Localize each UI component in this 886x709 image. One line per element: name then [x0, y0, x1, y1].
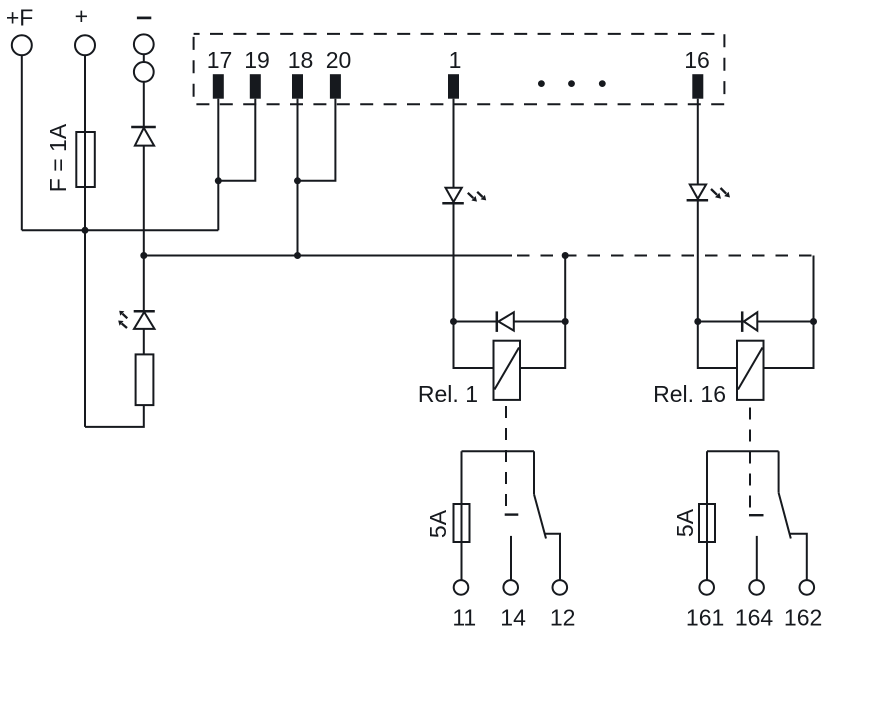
wire +F down [21, 55, 23, 230]
junction ch1 left [450, 318, 457, 325]
connector module boundary (dashed box) [194, 34, 725, 104]
junction ch16 right [810, 318, 817, 325]
diode D1 [131, 127, 156, 146]
junction ch1 right [562, 318, 569, 325]
wire coil16 left [698, 322, 737, 369]
wire pin 1 down [453, 99, 455, 188]
svg-text:+: + [75, 3, 88, 29]
terminal − upper circle [134, 34, 154, 54]
wire − down to diode [143, 82, 145, 127]
wire pin 19 down [218, 99, 255, 181]
terminal 11 [454, 580, 469, 595]
actuator link ch16 (dashed) [749, 408, 751, 515]
junction + rail [82, 227, 89, 234]
wire switch top ch16 [707, 450, 779, 452]
svg-text:Rel. 16: Rel. 16 [653, 381, 726, 407]
wire − between circles [143, 54, 145, 62]
terminal 14 [503, 580, 518, 595]
wire terminal 12 branch [545, 534, 561, 580]
svg-text:+F: +F [6, 4, 33, 30]
wire freewheel row ch16 [698, 321, 743, 323]
svg-text:18: 18 [288, 47, 314, 73]
wire horizontal − rail [144, 255, 512, 257]
terminal 162 [800, 580, 815, 595]
LED D2 (status) [118, 311, 155, 329]
contact bar ch1 [505, 513, 519, 515]
terminal 12 [553, 580, 568, 595]
svg-text:164: 164 [735, 605, 774, 631]
wire terminal 14 branch [510, 536, 512, 580]
relay coil K1 [494, 341, 521, 400]
wire terminal 161 branch [706, 451, 708, 580]
svg-text:20: 20 [326, 47, 352, 73]
junction 18 at − rail [294, 252, 301, 259]
pin 19 [250, 74, 261, 99]
svg-text:162: 162 [784, 605, 822, 631]
wire coil1 left [454, 322, 494, 369]
wire terminal 11 branch [461, 451, 463, 580]
switch blade ch1 [534, 451, 546, 538]
svg-text:1: 1 [449, 47, 462, 73]
svg-text:16: 16 [684, 47, 710, 73]
svg-text:12: 12 [550, 605, 576, 631]
svg-text:17: 17 [207, 47, 233, 73]
svg-text:14: 14 [500, 605, 526, 631]
fuse F1 (F = 1A) [76, 132, 95, 187]
wire coil1 right [520, 256, 565, 369]
label − [137, 17, 151, 20]
wire + down [84, 55, 86, 427]
svg-text:Rel. 1: Rel. 1 [418, 381, 478, 407]
contact bar ch16 [749, 514, 764, 516]
wire LED1 to coil node [453, 203, 455, 321]
pin 18 [292, 74, 303, 99]
wire LED to resistor [143, 329, 145, 355]
wire pin 20 down [298, 99, 336, 181]
fuse F2 (5A) ch1 [454, 504, 470, 542]
pin 16 [692, 74, 703, 99]
freewheeling diode VD1 [497, 311, 514, 332]
wire resistor to + rail [85, 405, 144, 427]
terminal +F [12, 35, 32, 55]
terminal + [75, 35, 95, 55]
LED channel 16 [687, 185, 730, 201]
wire horizontal +F rail [22, 229, 219, 231]
wire LED16 to coil node [697, 200, 699, 321]
wire terminal 164 branch [756, 536, 758, 580]
svg-text:5A: 5A [425, 509, 451, 538]
freewheeling diode VD16 [742, 311, 757, 332]
actuator link ch1 (dashed) [505, 406, 507, 514]
wire − diode to LED [143, 146, 145, 312]
relay coil K16 [737, 341, 764, 400]
junction 17/19 [215, 177, 222, 184]
wire switch top ch1 [462, 450, 535, 452]
junction − rail at − wire [140, 252, 147, 259]
terminal 164 [749, 580, 764, 595]
wire freewheel row ch1 [454, 321, 498, 323]
wire pin 17 down [217, 99, 219, 231]
junction 18/20 [294, 177, 301, 184]
svg-text:161: 161 [686, 605, 724, 631]
wire pin 18 down [297, 99, 299, 256]
terminal 161 [699, 580, 714, 595]
fuse F3 (5A) ch16 [699, 504, 715, 542]
pin 17 [213, 74, 224, 99]
ellipsis dots [538, 80, 606, 87]
svg-text:5A: 5A [672, 508, 698, 537]
LED channel 1 [442, 188, 486, 204]
wire terminal 162 branch [789, 534, 807, 580]
switch blade ch16 [779, 451, 791, 538]
junction ch16 left [694, 318, 701, 325]
resistor R1 [136, 354, 154, 405]
pin 20 [330, 74, 341, 99]
junction ch1 at − rail [562, 252, 569, 259]
terminal − lower circle [134, 62, 154, 82]
pin 1 [448, 74, 459, 99]
wire − rail drop to relay 16 [813, 256, 815, 322]
wire pin 16 down [697, 99, 699, 185]
svg-text:19: 19 [244, 47, 270, 73]
wire − rail dashed continuation [511, 255, 814, 257]
svg-text:F = 1A: F = 1A [45, 123, 71, 192]
svg-text:11: 11 [452, 605, 476, 631]
wire coil16 right [764, 322, 814, 369]
